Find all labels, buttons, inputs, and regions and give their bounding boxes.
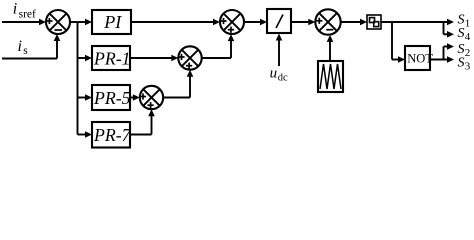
svg-text:dc: dc [278,72,288,83]
svg-text:PI: PI [103,12,122,32]
svg-text:NOT: NOT [407,52,433,66]
svg-text:PR-5: PR-5 [93,88,131,108]
svg-text:3: 3 [465,61,471,73]
svg-text:PR-1: PR-1 [93,49,131,69]
svg-text:2: 2 [465,47,471,59]
svg-text:u: u [270,65,278,81]
svg-text:PR-7: PR-7 [93,125,132,145]
svg-text:i: i [13,1,17,18]
svg-text:1: 1 [465,17,471,29]
svg-text:4: 4 [465,31,471,43]
svg-text:s: s [23,45,28,57]
svg-text:S: S [458,26,465,41]
svg-text:sref: sref [19,8,36,20]
svg-text:S: S [458,56,465,71]
svg-text:i: i [18,38,22,55]
